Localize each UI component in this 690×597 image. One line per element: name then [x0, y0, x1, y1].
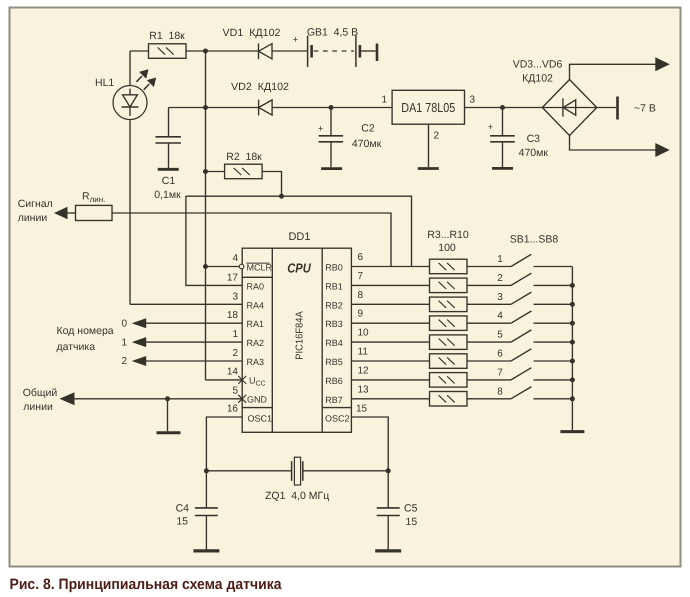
svg-text:2: 2	[497, 273, 503, 284]
resistor R3	[430, 259, 468, 274]
svg-text:VD2 КД102: VD2 КД102	[231, 81, 289, 93]
svg-text:4: 4	[497, 311, 503, 322]
svg-text:100: 100	[438, 242, 456, 254]
ground common	[167, 399, 169, 431]
capacitor C4	[205, 471, 207, 508]
svg-text:5: 5	[497, 330, 503, 341]
svg-text:13: 13	[358, 384, 370, 395]
bus junction 3	[570, 302, 575, 307]
svg-text:RB2: RB2	[325, 300, 343, 310]
svg-text:C4: C4	[176, 503, 190, 515]
switch SB4	[511, 311, 531, 323]
svg-text:R2 18к: R2 18к	[226, 151, 262, 163]
svg-text:R1 18к: R1 18к	[149, 30, 185, 42]
svg-text:RA3: RA3	[247, 357, 265, 367]
regulator DA1	[392, 90, 464, 124]
svg-text:3: 3	[232, 292, 238, 303]
wire HL1 to RA4 rail	[129, 119, 131, 304]
arrow top output	[655, 57, 670, 71]
resistor R7	[430, 335, 468, 350]
bus junction 4	[570, 321, 575, 326]
svg-text:RA2: RA2	[247, 338, 265, 348]
svg-text:RA4: RA4	[247, 300, 265, 310]
svg-text:C3: C3	[527, 133, 541, 145]
svg-text:Рис. 8. Принципиальная схема д: Рис. 8. Принципиальная схема датчика	[10, 576, 283, 593]
pin MCLR	[206, 266, 240, 268]
diode VD1	[258, 43, 260, 59]
wire R4 to SB2	[467, 284, 511, 286]
capacitor C5	[387, 471, 389, 508]
wire node B to Ucc rail	[205, 108, 207, 380]
svg-text:RB1: RB1	[325, 281, 343, 291]
svg-text:7: 7	[358, 271, 364, 282]
switch SB3	[511, 292, 531, 304]
wire bridge right	[597, 107, 617, 109]
LED emission arrows	[136, 69, 156, 90]
svg-text:6: 6	[497, 349, 503, 360]
svg-text:+: +	[293, 35, 299, 46]
node D junction	[279, 194, 284, 199]
wire GND out	[72, 398, 242, 400]
arrow bottom output	[655, 143, 670, 157]
svg-text:C1: C1	[162, 175, 176, 187]
svg-text:RB6: RB6	[325, 376, 343, 386]
switch SB6	[511, 349, 531, 361]
wire RA2 out	[146, 341, 242, 343]
ground C5	[375, 549, 401, 552]
svg-text:C2: C2	[361, 123, 375, 135]
svg-text:PIC16F84A: PIC16F84A	[294, 311, 305, 360]
wire R7 to SB5	[467, 341, 511, 343]
wire RA4 in	[130, 303, 242, 305]
svg-text:8: 8	[358, 290, 364, 301]
wire arrow to Rlin	[68, 212, 76, 214]
svg-text:7: 7	[497, 367, 503, 378]
svg-text:17: 17	[227, 273, 239, 284]
svg-text:линии: линии	[23, 401, 53, 413]
wire net MCLR-R2 horizontal	[186, 196, 412, 266]
svg-text:MCLR: MCLR	[247, 263, 273, 273]
bus junction 2	[570, 283, 575, 288]
svg-text:470мк: 470мк	[519, 147, 549, 159]
wire R5 to SB3	[467, 303, 511, 305]
svg-text:ZQ1 4,0 МГц: ZQ1 4,0 МГц	[265, 490, 329, 502]
wire RA0 riser	[186, 196, 242, 285]
svg-text:3: 3	[497, 292, 503, 303]
resistor R5	[430, 297, 468, 312]
resistor R4	[430, 278, 468, 293]
wire node to R2	[206, 171, 225, 173]
crystal ZQ1	[291, 461, 293, 481]
bridge VD3-VD6	[542, 80, 597, 136]
svg-text:2: 2	[434, 131, 440, 142]
node C2 junction	[329, 105, 334, 110]
ground C4	[193, 549, 219, 552]
svg-text:RB7: RB7	[325, 395, 343, 405]
node B junction	[203, 105, 208, 110]
svg-text:линии: линии	[18, 212, 48, 224]
resistor R6	[430, 316, 468, 331]
ground bus	[560, 430, 584, 433]
svg-text:10: 10	[358, 328, 370, 339]
svg-text:Код номера: Код номера	[57, 325, 114, 337]
svg-text:0: 0	[121, 318, 127, 329]
svg-text:3: 3	[470, 95, 476, 106]
battery terminal bar	[376, 44, 379, 62]
svg-text:16: 16	[227, 404, 239, 415]
node R2 left	[203, 169, 208, 174]
svg-text:1: 1	[381, 95, 387, 106]
svg-text:9: 9	[358, 309, 364, 320]
svg-text:OSC2: OSC2	[325, 414, 350, 424]
bus junction 5	[570, 340, 575, 345]
pin Ucc	[206, 379, 243, 381]
svg-text:DA1 78L05: DA1 78L05	[401, 100, 455, 115]
svg-text:датчика: датчика	[57, 341, 96, 353]
resistor R1	[149, 44, 187, 59]
ground DA1 pin2	[418, 167, 439, 170]
svg-text:CPU: CPU	[287, 260, 311, 275]
svg-text:HL1: HL1	[95, 77, 114, 89]
wire R2 right bend	[262, 172, 281, 197]
svg-text:11: 11	[358, 347, 369, 358]
wire R9 to SB7	[467, 379, 511, 381]
svg-text:15: 15	[406, 516, 418, 528]
capacitor C2	[330, 108, 332, 136]
wire RA1 out	[146, 322, 242, 324]
node XT right	[386, 468, 391, 473]
svg-text:5: 5	[232, 386, 238, 397]
svg-text:OSC1: OSC1	[248, 414, 273, 424]
svg-text:0,1мк: 0,1мк	[154, 189, 181, 201]
ground C2	[321, 167, 342, 170]
svg-text:1: 1	[121, 337, 127, 348]
resistor R8	[430, 354, 468, 369]
wire bridge top out	[570, 64, 658, 79]
switch SB7	[511, 368, 531, 380]
svg-text:~7 В: ~7 В	[634, 103, 656, 115]
svg-text:DD1: DD1	[288, 231, 310, 243]
node XT left	[204, 468, 209, 473]
bus junction 8	[570, 396, 575, 401]
svg-text:GB1 4,5 В: GB1 4,5 В	[307, 27, 358, 39]
svg-text:RA1: RA1	[247, 319, 265, 329]
svg-text:C5: C5	[404, 503, 418, 515]
svg-text:SB1...SB8: SB1...SB8	[510, 234, 559, 246]
svg-text:RB0: RB0	[325, 263, 343, 273]
svg-text:4: 4	[232, 253, 238, 264]
bus switches	[571, 267, 573, 431]
wire HL1 top	[129, 51, 131, 86]
svg-text:Общий: Общий	[23, 387, 58, 399]
resistor R10	[430, 392, 468, 407]
svg-text:1: 1	[232, 329, 238, 340]
switch SB2	[511, 273, 531, 285]
bus junction 7	[570, 377, 575, 382]
wire R3 to SB1	[467, 266, 511, 268]
wire node A to node B	[205, 51, 207, 108]
svg-text:14: 14	[227, 367, 239, 378]
svg-text:18: 18	[227, 310, 239, 321]
ground C1	[158, 168, 179, 171]
svg-text:8: 8	[497, 386, 503, 397]
svg-text:Сигнал: Сигнал	[18, 198, 53, 210]
node C3 junction	[500, 105, 505, 110]
wire R1 to node A	[186, 50, 260, 52]
wire Rlin to RB0 riser	[112, 213, 391, 267]
svg-text:RB4: RB4	[325, 338, 343, 348]
wire crystal rail	[206, 470, 291, 472]
svg-text:RA0: RA0	[247, 281, 265, 291]
wire top rail left	[130, 50, 149, 52]
svg-text:470мк: 470мк	[352, 138, 382, 150]
svg-text:R3...R10: R3...R10	[427, 229, 469, 241]
svg-text:VD3...VD6: VD3...VD6	[513, 59, 563, 71]
node MCLR junction	[203, 264, 208, 269]
wire R10 to SB8	[467, 398, 511, 400]
svg-text:15: 15	[356, 404, 368, 415]
switch SB5	[511, 330, 531, 342]
wire second rail	[169, 107, 259, 109]
bus junction 6	[570, 359, 575, 364]
capacitor C1	[168, 108, 170, 137]
svg-text:VD1 КД102: VD1 КД102	[223, 27, 281, 39]
svg-text:1: 1	[497, 254, 503, 265]
wire R8 to SB6	[467, 360, 511, 362]
IC DD1 box	[242, 248, 351, 432]
node GND junction	[165, 396, 170, 401]
wire VD1 to GB1	[272, 50, 307, 52]
node A junction	[203, 49, 208, 54]
resistor R2	[225, 164, 263, 179]
svg-text:2: 2	[121, 356, 127, 367]
arrow signal line	[54, 207, 68, 220]
svg-text:2: 2	[232, 348, 238, 359]
wire DA1 pin2	[428, 124, 430, 167]
wire RA3 out	[146, 360, 242, 362]
LED HL1	[113, 86, 147, 120]
resistor R9	[430, 373, 468, 388]
svg-text:12: 12	[358, 365, 370, 376]
svg-text:+: +	[488, 122, 494, 133]
diode VD2	[258, 100, 260, 116]
svg-text:RB5: RB5	[325, 357, 343, 367]
svg-text:GND: GND	[247, 394, 268, 404]
capacitor C3	[502, 108, 504, 136]
svg-text:КД102: КД102	[522, 73, 553, 85]
pin GND	[238, 395, 246, 403]
svg-text:+: +	[318, 124, 324, 135]
wire R6 to SB4	[467, 322, 511, 324]
switch SB1	[511, 254, 531, 266]
wire bridge bottom out	[570, 136, 657, 151]
switch SB8	[511, 387, 531, 399]
svg-text:15: 15	[176, 516, 188, 528]
terminal bar ~7V	[616, 97, 619, 120]
svg-text:6: 6	[358, 252, 364, 263]
ground C3	[492, 167, 513, 170]
resistor Rlin	[76, 205, 113, 220]
wire VD2 to DA1	[272, 107, 392, 109]
wire DA1 pin3	[465, 107, 543, 109]
svg-text:RB3: RB3	[325, 319, 343, 329]
